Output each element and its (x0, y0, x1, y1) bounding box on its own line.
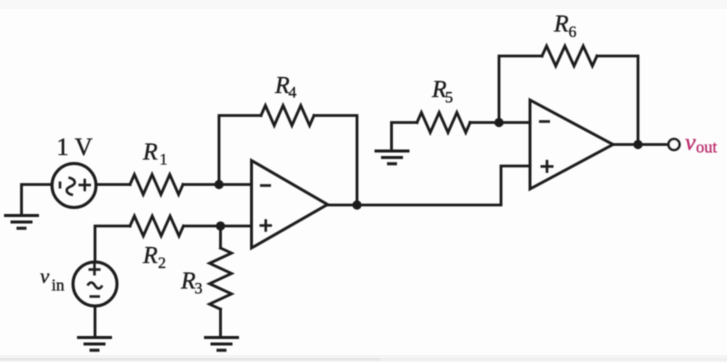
svg-text:2: 2 (158, 255, 166, 272)
svg-text:out: out (696, 138, 718, 157)
svg-text:4: 4 (289, 85, 297, 102)
svg-text:1: 1 (160, 152, 168, 169)
svg-text:5: 5 (445, 90, 453, 107)
svg-text:6: 6 (569, 24, 577, 41)
svg-text:R: R (553, 12, 569, 38)
svg-text:R: R (142, 243, 158, 269)
svg-text:in: in (52, 276, 65, 295)
svg-text:v: v (685, 130, 696, 156)
svg-text:1 V: 1 V (56, 134, 92, 161)
svg-text:R: R (142, 140, 158, 166)
svg-text:v: v (40, 264, 50, 288)
svg-text:3: 3 (195, 281, 203, 298)
